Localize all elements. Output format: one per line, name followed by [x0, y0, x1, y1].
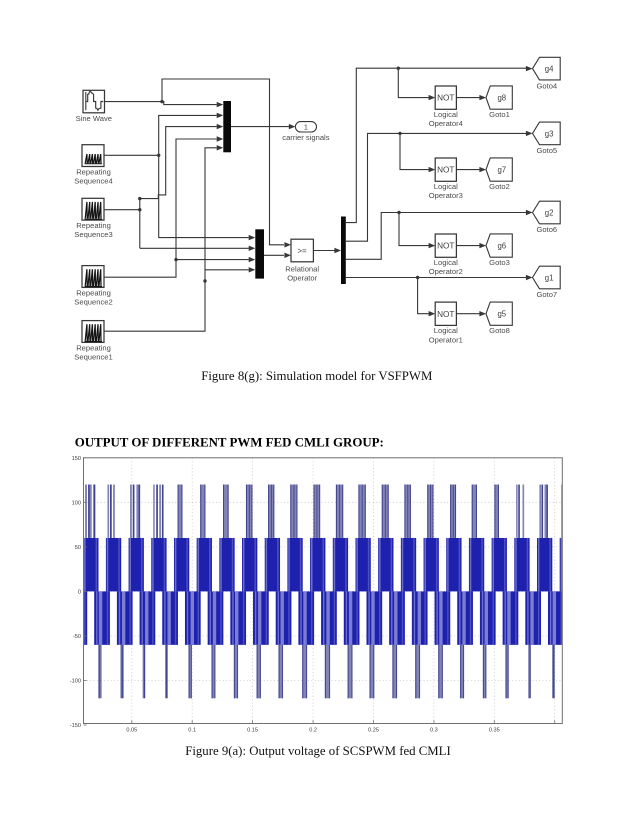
svg-text:100: 100 [72, 500, 81, 506]
svg-text:0.2: 0.2 [309, 728, 317, 734]
node RS1 riser junction [203, 279, 206, 282]
wire NOT output to Goto2 tag [456, 167, 486, 172]
svg-text:Logical: Logical [434, 326, 458, 335]
svg-text:Logical: Logical [434, 182, 458, 191]
svg-text:Repeating: Repeating [76, 221, 111, 230]
goto tag g5 (Goto8) [486, 302, 512, 325]
svg-text:-50: -50 [73, 634, 81, 640]
label Repeating Sequence1 [74, 343, 112, 361]
svg-text:0.35: 0.35 [489, 728, 500, 734]
svg-text:Goto3: Goto3 [489, 258, 510, 267]
svg-text:50: 50 [75, 545, 81, 551]
svg-text:g5: g5 [497, 310, 506, 319]
source block Repeating Sequence2 [82, 266, 104, 288]
demux Demux [341, 217, 346, 285]
svg-text:>=: >= [297, 247, 307, 256]
node branch to Logical Operator3 [398, 132, 401, 135]
svg-text:0.15: 0.15 [247, 728, 258, 734]
svg-text:0.1: 0.1 [188, 728, 196, 734]
wire Repeating Sequence2 output to riser [104, 260, 176, 278]
wire RS2 riser up to Mux1 input 4 [176, 136, 223, 259]
wire branch down into NOT Logical Operator1 [418, 278, 436, 317]
wire Sine Wave output to junction [105, 101, 163, 103]
chart axis frame [84, 458, 563, 724]
svg-text:Sequence2: Sequence2 [74, 298, 112, 307]
svg-text:Repeating: Repeating [76, 343, 111, 352]
goto tag g2 (Goto6) [533, 201, 561, 224]
svg-text:NOT: NOT [437, 242, 454, 251]
svg-text:Sine Wave: Sine Wave [76, 114, 112, 123]
svg-text:150: 150 [72, 456, 81, 462]
logic block NOT Logical Operator4 [435, 86, 456, 109]
wire Demux output 4 to Goto7 [346, 275, 533, 280]
source block Repeating Sequence3 [82, 198, 104, 220]
source block Repeating Sequence4 [82, 145, 104, 167]
mux Mux1 (carrier mux) [223, 101, 231, 152]
wire Demux output 2 to Goto5 [346, 131, 533, 242]
wire NOT output to Goto3 tag [456, 243, 486, 248]
svg-text:Goto6: Goto6 [536, 225, 557, 234]
wire branch down into NOT Logical Operator3 [400, 133, 435, 172]
svg-text:g2: g2 [545, 208, 554, 217]
node RS2 branch junction [174, 258, 177, 261]
svg-text:Operator: Operator [287, 274, 317, 283]
goto tag g1 (Goto7) [533, 266, 561, 289]
svg-text:Goto7: Goto7 [536, 290, 557, 299]
node RS4 junction [157, 154, 160, 157]
svg-text:1: 1 [304, 123, 308, 132]
svg-text:Operator4: Operator4 [429, 119, 463, 128]
svg-text:Operator2: Operator2 [429, 267, 463, 276]
wire RS4 riser down to Mux2 input 1 [159, 155, 256, 240]
svg-text:carrier signals: carrier signals [282, 133, 329, 142]
svg-text:g4: g4 [545, 65, 554, 74]
svg-text:Goto8: Goto8 [489, 326, 510, 335]
block Relational Operator U1 [291, 239, 313, 262]
node branch to Logical Operator2 [397, 211, 400, 214]
label Logical Operator4 [429, 110, 463, 128]
svg-text:Goto4: Goto4 [536, 81, 557, 90]
svg-text:0.3: 0.3 [430, 728, 438, 734]
chart axis ticks [84, 458, 555, 725]
goto tag g4 (Goto4) [533, 57, 561, 80]
svg-text:g3: g3 [545, 129, 554, 138]
node branch to Logical Operator4 [397, 67, 400, 70]
svg-text:g7: g7 [497, 166, 506, 175]
wire Mux1 output to carrier signals port [231, 124, 295, 129]
svg-text:Logical: Logical [434, 110, 458, 119]
goto tag g3 (Goto5) [533, 122, 561, 145]
svg-text:g1: g1 [545, 273, 554, 282]
svg-text:Goto2: Goto2 [489, 182, 510, 191]
logic block NOT Logical Operator3 [435, 158, 456, 181]
label Relational Operator [285, 264, 319, 282]
wire branch down into NOT Logical Operator4 [398, 68, 435, 100]
label Repeating Sequence4 [74, 167, 112, 185]
svg-text:NOT: NOT [437, 166, 454, 175]
wire RS1 riser up to Mux1 input 5 [205, 145, 223, 270]
svg-text:Sequence4: Sequence4 [74, 177, 112, 186]
label Logical Operator2 [429, 258, 463, 276]
svg-text:Figure 8(g): Simulation model: Figure 8(g): Simulation model for VSFPWM [201, 369, 432, 383]
wire sine junction to Mux1 input 1 [162, 102, 223, 108]
wire NOT output to Goto8 tag [456, 311, 486, 316]
svg-text:Operator1: Operator1 [429, 335, 463, 344]
wire RS3 riser down to Mux2 input 2 [140, 246, 256, 251]
wire sine junction up and over to Relational Operator input 1 [162, 79, 291, 248]
wire Demux output 1 to Goto4 [346, 66, 533, 223]
wire RS2 branch to Mux2 input 3 [176, 257, 255, 262]
wire Relational Operator output to Demux input [313, 248, 341, 253]
wire NOT output to Goto1 tag [456, 95, 486, 100]
svg-text:Operator3: Operator3 [429, 191, 463, 200]
svg-text:Repeating: Repeating [76, 288, 111, 297]
wire RS1 branch to Mux2 input 4 [205, 267, 255, 281]
svg-text:Sequence3: Sequence3 [74, 230, 112, 239]
wire Repeating Sequence4 output to riser junction [104, 154, 159, 156]
wire Demux output 3 to Goto6 [346, 210, 533, 259]
chart y tick labels [70, 456, 81, 729]
label Logical Operator3 [429, 182, 463, 200]
wire RS3 riser up, jog, to Mux1 input 3 [140, 124, 224, 248]
chart gridlines [84, 458, 563, 724]
svg-text:Sequence1: Sequence1 [74, 353, 112, 362]
wire branch down into NOT Logical Operator2 [399, 213, 435, 249]
wire RS4 riser up to Mux1 input 2 [159, 113, 224, 156]
svg-text:NOT: NOT [437, 94, 454, 103]
label Repeating Sequence3 [74, 221, 112, 239]
goto tag g6 (Goto3) [486, 234, 512, 257]
goto tag g8 (Goto1) [486, 86, 512, 109]
label Logical Operator1 [429, 326, 463, 344]
goto tag g7 (Goto2) [486, 158, 512, 181]
svg-text:Repeating: Repeating [76, 167, 111, 176]
svg-text:0.25: 0.25 [368, 728, 379, 734]
wire Repeating Sequence3 output to riser [104, 209, 140, 211]
node RS3 junction [138, 208, 141, 211]
waveform output voltage SCSPWM CMLI [61, 485, 587, 699]
node branch to Logical Operator1 [416, 276, 419, 279]
source block Sine Wave [83, 90, 105, 113]
svg-text:-100: -100 [70, 679, 81, 685]
logic block NOT Logical Operator2 [435, 234, 456, 257]
chart x tick labels [126, 728, 499, 734]
node RS3 riser top junction [138, 197, 141, 200]
svg-text:Relational: Relational [285, 264, 319, 273]
source block Repeating Sequence1 [82, 321, 104, 343]
svg-text:Logical: Logical [434, 258, 458, 267]
svg-text:g6: g6 [497, 242, 506, 251]
svg-text:NOT: NOT [437, 310, 454, 319]
svg-text:OUTPUT OF DIFFERENT PWM FED CM: OUTPUT OF DIFFERENT PWM FED CMLI GROUP: [75, 435, 384, 449]
label Repeating Sequence2 [74, 288, 112, 306]
svg-text:Goto1: Goto1 [489, 110, 510, 119]
svg-text:0: 0 [78, 589, 81, 595]
svg-text:0.05: 0.05 [126, 728, 137, 734]
node sine junction [160, 100, 163, 103]
output port 1 carrier signals [295, 122, 316, 132]
wire Repeating Sequence1 output to riser [104, 281, 205, 331]
svg-text:Figure 9(a): Output voltage of: Figure 9(a): Output voltage of SCSPWM fe… [185, 744, 451, 758]
svg-text:Goto5: Goto5 [536, 146, 557, 155]
mux Mux2 (reference mux) [255, 229, 264, 278]
svg-text:-150: -150 [70, 723, 81, 729]
logic block NOT Logical Operator1 [435, 302, 456, 325]
wire Mux2 output to Relational Operator input 2 [264, 253, 291, 258]
svg-text:g8: g8 [497, 94, 506, 103]
